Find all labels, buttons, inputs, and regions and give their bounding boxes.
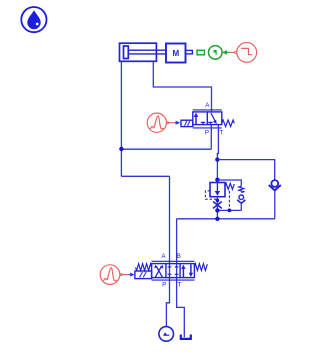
relief valve body xyxy=(210,183,225,197)
junction dot pilot xyxy=(228,209,232,213)
relief valve outlet line xyxy=(216,197,218,219)
solenoid box xyxy=(181,120,193,126)
wire: B-line xyxy=(177,218,275,220)
valve body xyxy=(152,264,195,278)
pump / pressure source xyxy=(159,327,174,342)
svg-text:T: T xyxy=(178,282,182,289)
pump glyph xyxy=(163,332,167,335)
relief valve junction dot (top) xyxy=(215,178,219,182)
wire: B/T line through 4/3 valve xyxy=(177,219,185,337)
check valve V4 ball xyxy=(271,180,278,187)
right position: A-T diagonal arrow xyxy=(211,113,215,121)
wire: to 4/3 A port xyxy=(121,175,169,177)
spring right xyxy=(222,120,235,127)
centre position: blocked ports tacks xyxy=(168,267,179,274)
step signal source (red circle) xyxy=(237,43,257,63)
svg-text:P: P xyxy=(162,282,166,289)
bypass branch spring xyxy=(237,186,245,210)
solenoid box xyxy=(135,271,152,279)
pilot junction dot xyxy=(216,199,220,203)
mass block M xyxy=(166,44,186,63)
signal wire to 3/2 solenoid xyxy=(170,122,176,124)
junction dot xyxy=(215,208,219,212)
left pilot line (dashed) xyxy=(205,191,217,199)
svg-text:P: P xyxy=(205,130,209,137)
signal wire sensor-to-step (green arrow) xyxy=(222,50,237,54)
source output pin xyxy=(120,274,123,276)
relief valve arrow xyxy=(216,183,218,193)
cylinder piston xyxy=(124,46,129,59)
3/2 proportional valve V1 xyxy=(181,110,234,128)
wire: 3/2 P down xyxy=(210,125,212,150)
right spring xyxy=(194,264,207,271)
bypass branch check valve ball xyxy=(239,195,244,200)
position sensor connector (green rect) xyxy=(197,50,204,55)
right pilot line (dashed) xyxy=(228,191,230,210)
bypass branch check valve seat xyxy=(237,200,245,203)
svg-text:B: B xyxy=(177,253,181,260)
4/3 proportional valve V2 xyxy=(135,261,207,280)
junction dot T-node xyxy=(215,157,219,161)
cylinder rod xyxy=(128,50,166,54)
wire: cylinder head port to 3/2 A xyxy=(153,61,211,112)
relief bottom connector xyxy=(217,209,241,211)
left position: blocked T tack xyxy=(201,122,205,124)
curve signal source (red) for 3/2 valve xyxy=(147,113,170,132)
check valve seat xyxy=(269,185,281,190)
cylinder C1 body xyxy=(120,43,167,61)
tank xyxy=(181,335,191,339)
signal wire to 4/3 solenoid xyxy=(123,274,129,276)
right position: parallel arrows xyxy=(182,269,184,278)
right position: blocked P tack xyxy=(208,122,212,124)
source output pin xyxy=(166,122,169,124)
left spring xyxy=(135,264,151,271)
relief top connector to bypass branch xyxy=(217,180,241,186)
junction dot xyxy=(119,147,123,151)
svg-text:T: T xyxy=(219,130,223,137)
valve body xyxy=(193,112,222,125)
junction dot on B-line xyxy=(215,217,219,221)
sensor glyph xyxy=(214,50,217,55)
position sensor (green circle) xyxy=(209,46,223,60)
left position: crossed arrows xyxy=(155,266,162,277)
wire: cylinder rear port down xyxy=(120,61,122,176)
wire: junction to 3/2 P xyxy=(121,148,211,150)
wire: check valve down to B-line xyxy=(274,190,276,218)
proportional parallel lines xyxy=(152,261,195,280)
pressure relief valve V3 xyxy=(205,183,234,219)
left position: arrow up xyxy=(195,116,197,125)
proportional parallel lines xyxy=(193,110,222,128)
orifice X symbol xyxy=(213,202,222,209)
curve signal source (red) for 4/3 valve xyxy=(100,265,123,285)
wire: 3/2 T down xyxy=(217,125,218,180)
relief valve spring xyxy=(225,183,234,189)
svg-text:M: M xyxy=(172,49,179,58)
wire: A/P line through 4/3 valve xyxy=(166,176,169,327)
wire: T-node to check valve xyxy=(217,160,274,180)
step source output pin xyxy=(234,51,237,55)
fluid properties icon xyxy=(21,7,46,32)
rod stub right of mass xyxy=(186,50,193,54)
